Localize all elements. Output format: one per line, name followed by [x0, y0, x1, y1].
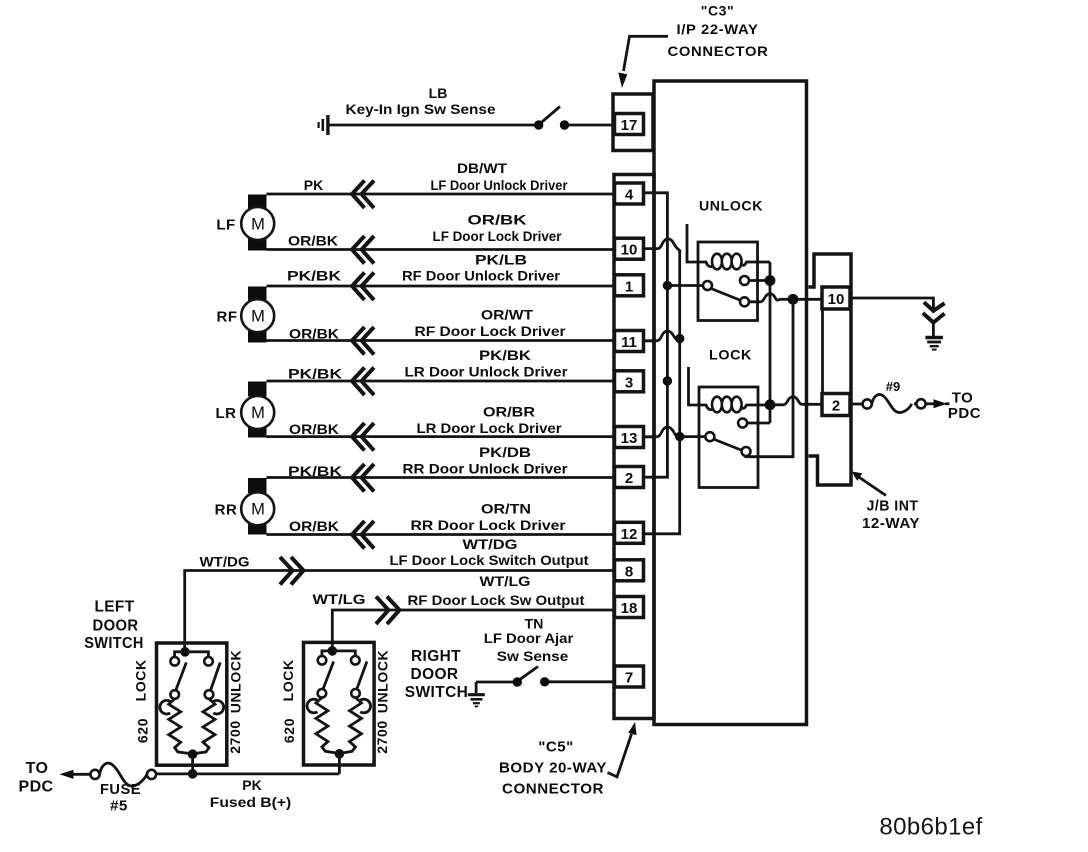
svg-text:#5: #5: [110, 798, 128, 815]
svg-text:8: 8: [625, 563, 633, 580]
svg-text:Fused B(+): Fused B(+): [210, 794, 292, 810]
svg-text:SWITCH: SWITCH: [405, 684, 469, 701]
svg-text:TO: TO: [26, 760, 49, 777]
S3 feed junction: [328, 646, 338, 656]
svg-text:10: 10: [621, 242, 638, 259]
svg-text:PK/BK: PK/BK: [288, 366, 342, 382]
wire WT/DG LF door lock switch output (pin 8): [185, 571, 615, 652]
pin 3: [615, 371, 644, 392]
svg-text:OR/BK: OR/BK: [288, 233, 338, 249]
svg-text:PK/BK: PK/BK: [287, 268, 341, 284]
svg-text:LB: LB: [429, 85, 448, 101]
switch (key-in): [534, 107, 569, 130]
connector C3 callout label: [618, 3, 768, 89]
offpage chevrons row 8: [352, 521, 374, 549]
wire OR/BK RR door lock driver (pin 12): [267, 533, 615, 536]
svg-text:LOCK: LOCK: [709, 347, 752, 363]
svg-text:RF Door Lock Sw Output: RF Door Lock Sw Output: [408, 592, 585, 608]
svg-text:13: 13: [621, 430, 638, 447]
svg-text:RR Door Lock Driver: RR Door Lock Driver: [411, 517, 567, 533]
svg-text:M: M: [251, 404, 265, 422]
S2 top bar and upper contacts: [170, 652, 212, 666]
label J/B INT 12-WAY with leader arrow: [852, 472, 921, 533]
offpage chevrons row 3: [352, 273, 374, 301]
pin 10 (J/B): [822, 287, 850, 309]
motor M4 RR door lock motor: [215, 478, 275, 535]
offpage chevrons row 2: [352, 236, 374, 264]
svg-text:620: 620: [135, 718, 151, 743]
svg-text:M: M: [251, 308, 265, 326]
svg-text:12-WAY: 12-WAY: [862, 515, 920, 532]
svg-text:FUSE: FUSE: [100, 781, 141, 798]
module U1 door lock control module: [654, 81, 807, 725]
svg-text:SWITCH: SWITCH: [84, 635, 144, 652]
pin 4: [615, 183, 644, 204]
svg-text:17: 17: [621, 117, 638, 134]
wire WT/LG RF door lock sw output (pin 18): [332, 610, 614, 651]
svg-text:CONNECTOR: CONNECTOR: [502, 781, 604, 798]
svg-text:PDC: PDC: [948, 405, 981, 422]
labels row 1: PK, DB/WT, LF Door Unlock Driver: [304, 160, 568, 193]
S2 spring arc right: [213, 700, 223, 714]
fuse #5: [90, 763, 156, 814]
svg-text:2: 2: [625, 470, 633, 487]
svg-text:CONNECTOR: CONNECTOR: [668, 43, 769, 59]
svg-text:18: 18: [621, 600, 638, 617]
relay K1 contacts and arm: [703, 276, 766, 306]
pin 2 (J/B): [822, 394, 850, 416]
svg-text:11: 11: [621, 334, 637, 351]
svg-text:RF Door Unlock Driver: RF Door Unlock Driver: [402, 268, 561, 284]
ground (LF door ajar sw): [468, 682, 485, 706]
svg-text:10: 10: [828, 291, 845, 308]
S2 feed junction: [180, 647, 190, 657]
svg-text:2: 2: [832, 398, 840, 415]
labels UNLOCK / 2700 (S2, rotated): [227, 650, 244, 754]
svg-text:DOOR: DOOR: [93, 618, 139, 635]
svg-text:2700: 2700: [374, 720, 390, 754]
svg-text:UNLOCK: UNLOCK: [699, 198, 763, 214]
svg-text:PK/BK: PK/BK: [288, 463, 342, 479]
svg-text:RR: RR: [215, 502, 238, 519]
svg-text:OR/BK: OR/BK: [289, 421, 339, 437]
switch LF door ajar: [513, 667, 550, 687]
wire PK/BK RR door unlock driver (pin 2): [267, 476, 615, 479]
pin 10: [615, 238, 644, 259]
svg-text:WT/DG: WT/DG: [200, 554, 250, 570]
junction v1/pin3: [663, 376, 672, 385]
offpage chevrons row 7: [352, 464, 374, 492]
wire OR/BK LF door lock driver (pin 10): [267, 248, 615, 251]
svg-text:#9: #9: [886, 379, 900, 394]
switch S3 right door switch box: [304, 642, 375, 765]
svg-text:LOCK: LOCK: [133, 659, 149, 701]
relay K1 UNLOCK: [698, 198, 763, 321]
label TO PDC (right): [948, 390, 981, 423]
svg-text:4: 4: [625, 187, 634, 204]
wire PK LF door unlock driver (pin 4): [267, 193, 615, 196]
svg-text:LF: LF: [216, 217, 235, 234]
svg-text:LF Door Ajar: LF Door Ajar: [484, 630, 574, 646]
pin 12: [615, 522, 644, 543]
S3 bottom junction to B+ rail: [335, 749, 345, 774]
svg-text:Sw Sense: Sw Sense: [497, 648, 569, 664]
wire coil-right / NO contact junction to vertical bus x770: [765, 262, 776, 423]
S2 unlock-side arm and contact: [205, 663, 221, 699]
pin 2: [615, 467, 644, 488]
pin 1: [615, 275, 644, 296]
labels LOCK / 620 (S3, rotated): [280, 659, 297, 743]
svg-text:M: M: [251, 216, 265, 234]
svg-text:OR/TN: OR/TN: [481, 501, 531, 517]
wire unlock bus v1 (pins 4,1,3,2): [644, 193, 668, 477]
S3 lock-side arm and contact: [318, 662, 334, 698]
wire lock bus v2 (pins 10,11,13,12): [644, 250, 680, 534]
labels row 9: WT/DG, WT/DG, LF Door Lock Switch Output: [200, 536, 589, 570]
junction LOCK coil-right on x770: [765, 399, 776, 410]
label LB / Key-In Ign Sw Sense: [346, 85, 496, 117]
wire PK/BK RF door unlock driver (pin 1): [267, 285, 615, 288]
svg-text:WT/DG: WT/DG: [463, 536, 518, 552]
svg-text:3: 3: [625, 374, 633, 391]
wire fused B+ rail: [156, 773, 339, 776]
labels row 6: OR/BK, OR/BR, LR Door Lock Driver: [289, 404, 562, 438]
ground (right, chassis): [923, 302, 945, 349]
motor M2 RF door lock motor: [217, 287, 275, 343]
ground (key-in ign sw sense): [319, 115, 328, 135]
svg-text:RR Door Unlock Driver: RR Door Unlock Driver: [403, 461, 569, 477]
svg-text:WT/LG: WT/LG: [313, 591, 366, 607]
svg-text:DOOR: DOOR: [411, 666, 459, 683]
svg-text:UNLOCK: UNLOCK: [374, 650, 390, 713]
label TN / LF Door Ajar / Sw Sense: [484, 616, 574, 665]
svg-text:TO: TO: [952, 390, 974, 407]
S3 spring arc right: [360, 699, 370, 713]
S3 top bar and upper contacts: [318, 651, 360, 665]
svg-text:UNLOCK: UNLOCK: [228, 650, 244, 713]
svg-text:DB/WT: DB/WT: [457, 160, 507, 176]
relay K2 contacts and arm: [705, 419, 770, 457]
svg-text:LR: LR: [216, 405, 237, 422]
motor M1 LF door lock motor: [216, 195, 274, 251]
labels row 4: OR/BK, OR/WT, RF Door Lock Driver: [289, 307, 566, 342]
wire LB key-in ign sw sense: [330, 124, 615, 127]
resistor R4 2700 ohm: [339, 698, 361, 754]
label RIGHT DOOR SWITCH: [405, 648, 469, 701]
wire OR/BK LR door lock driver (pin 13): [267, 435, 615, 438]
S2 spring arc left: [160, 700, 170, 714]
svg-text:2700: 2700: [227, 720, 243, 754]
S3 spring arc left: [307, 699, 317, 713]
svg-text:OR/BR: OR/BR: [483, 404, 535, 420]
svg-text:RF: RF: [217, 309, 238, 326]
svg-text:J/B INT: J/B INT: [867, 498, 919, 515]
svg-text:LEFT: LEFT: [95, 599, 135, 616]
pin 13: [615, 427, 644, 448]
svg-text:OR/BK: OR/BK: [468, 212, 527, 228]
svg-text:OR/BK: OR/BK: [289, 326, 339, 342]
svg-text:PK: PK: [242, 777, 261, 793]
svg-text:M: M: [251, 501, 265, 519]
labels row 7: PK/BK, PK/DB, RR Door Unlock Driver: [288, 444, 568, 479]
wire ground to ajar switch: [476, 681, 513, 684]
svg-text:1: 1: [625, 278, 633, 295]
svg-text:"C5": "C5": [538, 739, 573, 756]
svg-text:PK: PK: [304, 177, 323, 193]
labels UNLOCK / 2700 (S3, rotated): [374, 650, 390, 754]
S3 unlock-side arm and contact: [351, 662, 367, 698]
wire and arrow to PDC (left): [19, 760, 91, 796]
connector C5 callout label: [499, 722, 637, 798]
svg-text:OR/WT: OR/WT: [481, 307, 533, 323]
offpage chevrons row 10 (pointing right): [376, 597, 400, 625]
svg-text:LF Door Unlock Driver: LF Door Unlock Driver: [431, 177, 568, 193]
svg-text:LR Door Unlock Driver: LR Door Unlock Driver: [405, 364, 569, 380]
wire pin10 to lock bus with hop over v1: [644, 239, 680, 253]
svg-text:12: 12: [621, 526, 638, 543]
fuse #9: [863, 379, 950, 413]
offpage chevrons row 6: [352, 423, 374, 451]
svg-text:80b6b1ef: 80b6b1ef: [879, 814, 982, 841]
offpage chevrons row 1: [352, 181, 374, 209]
labels row 2: OR/BK, OR/BK, LF Door Lock Driver: [288, 212, 562, 249]
offpage chevrons row 4: [352, 327, 374, 355]
junction v1/pin1 with wire to UNLOCK relay common: [663, 281, 703, 290]
svg-text:620: 620: [281, 718, 297, 743]
svg-text:LR Door Lock Driver: LR Door Lock Driver: [417, 420, 563, 436]
svg-text:7: 7: [625, 670, 633, 687]
wire pin11 to v2 with hop over v1: [644, 331, 685, 343]
junction ground-path node: [788, 294, 799, 305]
wire J/B pin10 to ground: [850, 298, 933, 309]
pin 18: [615, 597, 644, 618]
svg-text:RF Door Lock Driver: RF Door Lock Driver: [415, 323, 567, 339]
watermark 80b6b1ef: [879, 814, 982, 841]
resistor R3 620 ohm: [316, 698, 340, 754]
connector J/B INT 12-WAY housing: [809, 254, 852, 485]
labels LOCK / 620 (S2, rotated): [133, 659, 151, 743]
labels row 3: PK/BK, PK/LB, RF Door Unlock Driver: [287, 252, 561, 284]
wire ground-path down to LOCK NC contact: [746, 299, 793, 456]
relay K2 LOCK: [699, 347, 758, 488]
svg-text:LOCK: LOCK: [280, 659, 296, 701]
labels row 8: OR/BK, OR/TN, RR Door Lock Driver: [289, 501, 566, 535]
svg-text:Key-In Ign Sw Sense: Key-In Ign Sw Sense: [346, 101, 496, 117]
svg-text:LF Door Lock Driver: LF Door Lock Driver: [433, 228, 563, 244]
wire pin13 to v2 with hop over v1, continuing to LOCK relay common: [644, 427, 706, 441]
label LEFT DOOR SWITCH: [84, 599, 144, 653]
labels row 5: PK/BK, PK/BK, LR Door Unlock Driver: [288, 347, 568, 382]
svg-text:PDC: PDC: [19, 779, 54, 796]
pin 11: [615, 331, 644, 352]
wire J/B pin2 to fuse #9: [850, 403, 863, 406]
resistor R2 2700 ohm: [193, 699, 215, 754]
connector C3 pin-17 housing: [613, 94, 653, 151]
labels row 10: WT/LG, WT/LG, RF Door Lock Sw Output: [313, 573, 585, 608]
svg-text:PK/DB: PK/DB: [479, 444, 531, 460]
offpage chevrons row 5: [352, 368, 374, 396]
offpage chevrons row 9 (pointing right): [280, 557, 304, 585]
wire TN LF door ajar sw sense (pin 7): [549, 680, 615, 683]
label PK Fused B(+): [210, 777, 292, 810]
wire K1 NC contact to ground node with hop over x770: [749, 294, 822, 302]
connector C3 main housing: [614, 175, 654, 719]
resistor R1 620 ohm: [169, 699, 193, 754]
svg-text:I/P 22-WAY: I/P 22-WAY: [677, 21, 759, 37]
relay K1 coil with stub: [687, 224, 770, 269]
motor M3 LR door lock motor: [216, 382, 275, 438]
S2 bottom junction to B+ rail: [188, 749, 198, 778]
svg-text:PK/LB: PK/LB: [475, 252, 527, 268]
wire OR/BK RF door lock driver (pin 11): [267, 339, 615, 342]
wire PK/BK LR door unlock driver (pin 3): [267, 380, 615, 383]
svg-text:LF Door Lock Switch Output: LF Door Lock Switch Output: [390, 552, 589, 568]
S2 lock-side arm and contact: [170, 663, 186, 699]
svg-text:"C3": "C3": [701, 3, 735, 19]
svg-text:OR/BK: OR/BK: [289, 518, 339, 534]
wire x770 node to J/B pin 2 with hop over x793: [770, 397, 822, 405]
pin 7: [615, 666, 644, 687]
svg-text:RIGHT: RIGHT: [411, 648, 461, 665]
pin 17: [615, 114, 644, 135]
svg-text:PK/BK: PK/BK: [479, 347, 531, 363]
svg-text:BODY 20-WAY: BODY 20-WAY: [499, 760, 607, 777]
pin 8: [615, 560, 644, 581]
svg-text:WT/LG: WT/LG: [480, 573, 531, 589]
switch S2 left door switch box: [157, 643, 227, 765]
relay K2 coil with stub: [689, 367, 771, 412]
